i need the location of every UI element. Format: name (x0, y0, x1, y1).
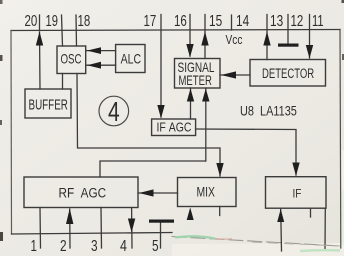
scan light patch bottom right (172, 243, 344, 256)
block RF AGC (24, 177, 138, 208)
wire IF AGC to SIGNAL METER (190, 88, 192, 119)
wire MIX to RF AGC (138, 192, 178, 194)
pin 19 lead (62, 15, 63, 46)
wire node at signal meter bottom to AGC bus (205, 88, 207, 161)
svg-text:METER: METER (179, 72, 213, 88)
svg-text:IF AGC: IF AGC (157, 122, 192, 135)
arrow left into SIGNAL METER from DETECTOR (221, 71, 236, 78)
arrow down into SIGNAL METER from pin 16 (186, 44, 193, 58)
IC outline bottom border left segment (12, 233, 173, 235)
arrow up into SIGNAL METER bottom left (187, 89, 194, 102)
arrow left into OSC lower from ALC (87, 62, 101, 69)
svg-text:13: 13 (270, 11, 283, 29)
pin 5 lead (160, 222, 162, 248)
arrow up into SIGNAL METER bottom right (202, 89, 209, 102)
svg-text:4: 4 (108, 97, 120, 128)
pin 2 lead (69, 209, 71, 248)
arrowheads (36, 32, 313, 233)
arrow down toward pin 4 (128, 219, 135, 233)
block OSC (57, 46, 86, 74)
svg-text:U8 LA1135: U8 LA1135 (240, 103, 297, 118)
svg-text:RF AGC: RF AGC (59, 185, 107, 201)
svg-text:15: 15 (209, 11, 222, 29)
pin lead below MIX stub (219, 207, 221, 216)
pin lead IF right corner down (324, 208, 326, 250)
pin lead below IF with arrow (280, 209, 283, 251)
svg-text:19: 19 (46, 11, 59, 30)
arrow down into IF AGC from pin 17 (157, 105, 164, 119)
arrow up toward pin 13 from DETECTOR (263, 32, 270, 46)
arrow down into IF from IF AGC wire (292, 163, 299, 177)
pin 12 lead (287, 15, 289, 45)
wire OSC to MIX horizontal (77, 74, 220, 177)
svg-text:4: 4 (120, 238, 127, 256)
callout circle 4 (99, 96, 129, 128)
pin 11 lead wire to DETECTOR (309, 15, 311, 59)
arrow up into pin 20 (36, 32, 43, 46)
wire ALC to OSC lower (86, 64, 116, 66)
wire DETECTOR to SIGNAL METER (220, 74, 250, 76)
wire BUFFER to pin 20 (39, 32, 42, 89)
wire ALC to OSC upper (86, 50, 116, 52)
pin 4 lead (131, 208, 133, 249)
arrow down into DETECTOR from pin 11 (306, 45, 313, 59)
svg-text:Vcc: Vcc (226, 33, 243, 47)
pin 18 lead (75, 15, 78, 46)
arrow down into MIX from OSC wire (216, 163, 223, 177)
capacitor bar pin 12 (278, 44, 299, 47)
svg-text:DETECTOR: DETECTOR (262, 65, 314, 81)
block ALC (116, 45, 145, 73)
svg-text:17: 17 (144, 11, 157, 29)
wire AGC bus to RF AGC (100, 161, 206, 177)
pin 20 lead (39, 15, 41, 31)
IC outline right border (339, 30, 342, 249)
svg-text:ALC: ALC (121, 51, 142, 67)
arrow up into IF bottom (277, 209, 284, 222)
wire IF AGC to IF (196, 129, 296, 175)
pin 16 lead wire to SIGNAL METER (189, 15, 191, 57)
svg-text:IF: IF (293, 188, 302, 201)
pin 14 lead (231, 15, 233, 30)
pin 13 lead wire from DETECTOR (266, 15, 268, 60)
svg-text:BUFFER: BUFFER (29, 97, 68, 113)
pin 15 lead wire from SIGNAL METER (204, 15, 206, 59)
arrow up into MIX bottom (187, 208, 194, 221)
svg-text:11: 11 (312, 11, 324, 30)
scan light strip right edge (341, 150, 344, 250)
IC outline bottom border right faint segment (172, 237, 340, 247)
block MIX (178, 178, 237, 207)
arrow left into OSC upper from ALC (87, 47, 101, 54)
svg-text:14: 14 (236, 11, 249, 29)
svg-text:MIX: MIX (197, 184, 215, 200)
IC outline left border (10, 31, 13, 235)
svg-text:1: 1 (31, 236, 38, 254)
svg-text:3: 3 (91, 236, 98, 254)
arrow left into RF AGC from MIX (139, 189, 154, 196)
block IF AGC (152, 119, 196, 136)
svg-text:2: 2 (60, 236, 67, 254)
arrow up toward pin 15 from SIGNAL METER (201, 32, 208, 46)
pin lead IF bottom stub (310, 208, 312, 217)
svg-text:16: 16 (174, 11, 187, 29)
svg-text:5: 5 (152, 236, 159, 254)
svg-text:20: 20 (25, 11, 38, 29)
pin 1 lead (39, 208, 42, 249)
capacitor bar pin 5 (149, 220, 174, 223)
pin 17 lead wire to IF AGC (160, 15, 162, 118)
block text labels (29, 33, 315, 201)
IC outline U8 top border (11, 30, 340, 31)
block BUFFER (25, 89, 71, 118)
pin 3 lead (100, 208, 103, 249)
wire OSC to BUFFER (62, 74, 64, 90)
block DETECTOR (250, 60, 326, 87)
svg-text:OSC: OSC (61, 52, 82, 67)
svg-text:18: 18 (78, 11, 91, 29)
block IF (266, 177, 327, 209)
svg-text:12: 12 (291, 11, 304, 29)
arrow up into RF AGC from pin 2 (66, 209, 73, 225)
block SIGNAL METER (175, 59, 221, 89)
